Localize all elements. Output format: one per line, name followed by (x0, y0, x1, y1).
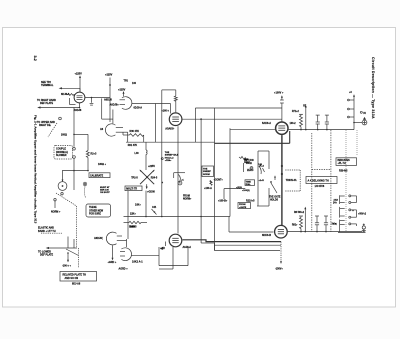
connector socket pins (349, 195, 357, 226)
svg-text:NORM +: NORM + (51, 211, 61, 214)
label 6DK6 (V6) (262, 234, 271, 237)
svg-text:5AK8-A: 5AK8-A (262, 122, 271, 125)
wire y151 (257, 151, 269, 206)
resistor R44 (124, 221, 148, 228)
svg-text:PART: PART (244, 161, 250, 164)
wire V5 cathode bold (281, 135, 283, 225)
svg-text:OTHER NEW: OTHER NEW (89, 210, 104, 212)
svg-text:MULTI TR: MULTI TR (126, 187, 137, 190)
resistor R30 (123, 130, 144, 142)
capacitor C84 (324, 216, 328, 232)
svg-text:+GR: +GR (160, 248, 165, 250)
wire V5 plate bus right (289, 129, 354, 131)
svg-text:+R+2: +R+2 (259, 166, 265, 168)
label A6DJ8 grid (104, 99, 119, 107)
variable arm R82 (294, 207, 306, 232)
svg-text:THE: THE (165, 152, 170, 154)
svg-text:-100 v +: -100 v + (62, 264, 71, 267)
pot wiper small (244, 163, 253, 172)
svg-text:24(3: 24(3 (334, 198, 339, 201)
ground chassis (362, 224, 366, 233)
wire V4 plate bold (183, 240, 282, 242)
tube V6 (275, 225, 288, 238)
label A6DJ8 (V1B) (100, 128, 104, 131)
svg-text:R2+3: R2+3 (91, 153, 97, 156)
contact pin (54, 199, 56, 209)
dashed box verticals (312, 130, 331, 232)
switch arm diagonal (66, 249, 79, 256)
ground symbol mid (274, 175, 276, 180)
svg-text:SWEEP: SWEEP (203, 171, 211, 173)
wire bus y216.5 (124, 216, 231, 218)
label block right of pot (100, 186, 110, 194)
wire y232 stub (229, 217, 274, 233)
svg-text:A6DJ8(: A6DJ8( (94, 237, 103, 240)
arrow marker above terminal (360, 111, 366, 120)
wire box top (195, 108, 282, 142)
label 6DJ8-A (61, 93, 70, 96)
pentode V3 (169, 113, 182, 126)
svg-text:R210+5: R210+5 (246, 199, 255, 202)
label 100-2 right of V5 (290, 122, 297, 125)
label 8DJ8 (72, 283, 81, 286)
label TO UPPER DEF PLATE (37, 121, 55, 127)
dashed box NORMAL (54, 146, 73, 160)
capacitor C83 (315, 216, 319, 232)
svg-text:HOLDS: HOLDS (270, 199, 279, 201)
label 5AK8-A (V5) (262, 122, 271, 125)
text THE SWEEP IDLE block (165, 152, 179, 162)
wire x201 drop (200, 119, 202, 243)
svg-text:CALIBRATE: CALIBRATE (90, 174, 104, 177)
wire center frame (162, 90, 176, 217)
connector P2 plug (340, 207, 345, 218)
dashed link (84, 187, 85, 198)
wire x178 cathode chain (177, 126, 179, 233)
svg-text:+100-B+: +100-B+ (218, 199, 228, 202)
label R31 (128, 144, 138, 147)
label NORM (51, 211, 61, 214)
svg-text:+160 v: +160 v (161, 110, 169, 113)
pentode V5 (276, 122, 288, 134)
wire feedback box (159, 246, 188, 269)
wire lower def-plate bus (46, 237, 77, 250)
label FROM NORM (183, 195, 192, 200)
svg-text:180Ω +: 180Ω + (98, 163, 107, 166)
svg-text:8DJ-A8: 8DJ-A8 (72, 283, 81, 286)
label A6DJ8 under V1A (74, 109, 82, 112)
svg-text:+225V: +225V (105, 74, 113, 77)
variable arm R72 (303, 105, 307, 130)
svg-text:10K+: 10K+ (135, 204, 141, 207)
terminal CRT upper (353, 120, 367, 125)
svg-text:NORM: NORM (203, 174, 210, 176)
svg-text:C44: C44 (152, 206, 157, 209)
label 1/4 6FV8 (315, 185, 325, 188)
label TP2 100 (124, 80, 137, 86)
svg-text:Circuit Description — Type 313: Circuit Description — Type 313A (371, 57, 375, 119)
label A5AK8 (165, 127, 174, 130)
resistor R1 grid stopper (67, 94, 75, 96)
label +100-A (204, 187, 212, 190)
node +225V (V2A plate) (118, 89, 126, 97)
junction marks (281, 165, 283, 175)
label +100-B (218, 199, 228, 202)
svg-text:10K2 A-1: 10K2 A-1 (132, 260, 143, 263)
label +50V (358, 213, 367, 215)
box RELAY note (60, 272, 97, 282)
small circle note (161, 158, 163, 184)
svg-text:TP2-5: TP2-5 (131, 177, 138, 180)
box A4 DELAYING (306, 177, 337, 184)
label A6DJ8 (V2B upper) (94, 237, 103, 240)
svg-text:3-6(: 3-6( (333, 223, 337, 225)
svg-text:24+: 24+ (333, 201, 338, 204)
svg-text:MUST AT: MUST AT (100, 186, 110, 189)
wire grid loop left (102, 98, 113, 119)
svg-text:L30: L30 (135, 152, 140, 155)
svg-text:+R34+: +R34+ (165, 159, 172, 162)
svg-text:SWEEP IDLE: SWEEP IDLE (165, 155, 179, 157)
caption SWEEP AND TRIG (38, 227, 56, 233)
svg-text:THE: THE (203, 168, 208, 170)
label R210 (242, 190, 255, 203)
svg-text:6DK6-B: 6DK6-B (262, 234, 271, 237)
switch arm dashed (56, 193, 77, 248)
svg-text:ON SUPP: ON SUPP (100, 192, 110, 194)
resistor R60 (174, 90, 177, 112)
box TIME DIAL (245, 180, 255, 186)
svg-text:+(2)Ω: +(2)Ω (236, 187, 242, 189)
resistor R71 (292, 111, 303, 129)
label TP left of X (131, 177, 138, 180)
svg-text:A6DJ8: A6DJ8 (104, 99, 112, 102)
label 6DJ8 (V2B lower) (132, 260, 143, 263)
dashed drop (78, 248, 80, 268)
wire box bottom (201, 243, 281, 251)
capacitor C44 (152, 206, 157, 215)
node -100V stub (62, 252, 71, 267)
label 10K (135, 204, 141, 207)
svg-text:INDICATES: INDICATES (338, 159, 351, 162)
label +GRD (V4) (160, 242, 166, 251)
connector P1 plug (334, 195, 345, 204)
wire bold y142 (215, 131, 290, 143)
node +100V (274, 92, 284, 122)
box INDICATES (336, 158, 357, 166)
box MULTI label (125, 186, 142, 191)
contact pin x180 (178, 181, 212, 185)
capacitor arc right of x173 (174, 173, 185, 183)
label 5AK8 above (129, 226, 136, 229)
svg-text:6DJ8-A: 6DJ8-A (134, 107, 143, 110)
label +CONT (214, 180, 224, 182)
wire box left (214, 108, 216, 251)
svg-text:+225V: +225V (118, 89, 126, 92)
svg-text:SEE: SEE (244, 159, 249, 161)
svg-text:3-2: 3-2 (33, 56, 37, 61)
svg-text:SLOWER: SLOWER (56, 154, 67, 157)
tube V4 (169, 234, 182, 247)
node +225V (second) (105, 74, 113, 123)
svg-text:R8 500+2: R8 500+2 (294, 212, 305, 214)
left rail junction (61, 133, 88, 136)
svg-text:TERMINAL: TERMINAL (41, 84, 54, 87)
svg-text:200Ω: 200Ω (61, 133, 67, 136)
svg-text:DEF PLATE: DEF PLATE (40, 102, 54, 105)
node -150V below V6 (280, 242, 282, 263)
svg-text:6DJ8-A: 6DJ8-A (61, 93, 70, 96)
wire V2A anode to box (132, 104, 171, 143)
svg-text:DEF PLATE: DEF PLATE (40, 254, 54, 257)
svg-text:A5AK8-: A5AK8- (165, 127, 174, 130)
label 6DJ8-A (V2A) (134, 107, 143, 110)
wire y188 stub (224, 189, 245, 199)
wire V6 plate bus right (288, 231, 363, 233)
wire def-plate bus (37, 103, 80, 109)
wire left rail (73, 108, 75, 147)
svg-text:+225V: +225V (75, 73, 83, 76)
svg-text:AND SO ON: AND SO ON (65, 277, 79, 280)
terminal small (59, 117, 62, 120)
label TO LOWER DEF PLATE (38, 250, 54, 256)
svg-text:THE GATE: THE GATE (269, 195, 281, 198)
svg-text:FROM: FROM (183, 195, 190, 197)
svg-text:+GATE: +GATE (239, 206, 247, 209)
switch arm rotary (270, 181, 277, 193)
figure caption (rotated) (34, 115, 38, 224)
svg-text:+100-A: +100-A (204, 187, 212, 190)
resistor R81 (292, 216, 303, 232)
svg-text:DIAL: DIAL (246, 183, 252, 186)
label AGRD (119, 268, 129, 271)
svg-text:+CONT+: +CONT+ (214, 180, 224, 182)
resistor R2 diagonal (86, 134, 97, 170)
svg-text:R31 47K: R31 47K (128, 144, 138, 147)
svg-text:100-2: 100-2 (290, 122, 297, 125)
terminal X (83, 182, 87, 186)
node +225V (V1 plate) (75, 73, 83, 93)
triode V2B lower (120, 248, 132, 261)
svg-text:+100V +: +100V + (274, 92, 284, 95)
svg-text:22K+: 22K+ (130, 212, 136, 215)
potentiometer R5 (58, 171, 67, 195)
svg-text:R39-NS: R39-NS (339, 169, 348, 172)
label 3-6 (332, 223, 337, 225)
svg-text:+GRD +: +GRD + (108, 261, 117, 264)
svg-text:BAND + LT7 TH: BAND + LT7 TH (38, 230, 56, 233)
svg-text:+50V+2: +50V+2 (358, 213, 367, 215)
box THESE (rounded) (86, 204, 111, 217)
dotted rail x346 (346, 130, 357, 232)
label TO RIGHT HAND DEF PLATE (37, 99, 56, 105)
svg-text:RIGHT DE.: RIGHT DE. (39, 124, 51, 127)
svg-text:R81+: R81+ (292, 224, 298, 226)
wire inner box (230, 128, 275, 216)
svg-text:A6DJ8+: A6DJ8+ (110, 104, 120, 107)
triode V2A (120, 97, 132, 110)
label A6DJ8 (V4) (183, 246, 192, 249)
svg-text:A6J8-A: A6J8-A (183, 246, 192, 249)
svg-text:(2): (2) (363, 113, 366, 115)
capacitor C74 (325, 115, 329, 130)
label 180 (98, 163, 107, 166)
svg-text:TRICN-3A: TRICN-3A (286, 179, 297, 182)
svg-text:+225V: +225V (148, 165, 155, 168)
page header (rotated) (371, 57, 375, 119)
wire X output arrow (146, 184, 156, 193)
box FROM GATE (238, 203, 251, 209)
switch SW1 contacts (73, 148, 76, 171)
box CALIBRATED (89, 173, 110, 178)
svg-text:+PL-TH: +PL-TH (338, 163, 346, 165)
svg-text:HOLD+2: HOLD+2 (165, 157, 174, 159)
text stack right notes (244, 159, 250, 164)
resistor R40 diagonal (239, 156, 254, 171)
wire V3 plate bus (183, 118, 282, 120)
svg-text:A 4 DELAYING TH: A 4 DELAYING TH (308, 179, 329, 182)
wire cathode arrow (108, 245, 117, 264)
svg-text:ZERO: ZERO (247, 170, 254, 172)
capacitor C1 (90, 97, 94, 105)
label R391 (339, 169, 348, 172)
inductor L30 (135, 142, 148, 170)
svg-text:Fig. 2-1 Amplifier Upper and: Fig. 2-1 Amplifier Upper and lower beam … (34, 115, 38, 224)
svg-text:+C: +C (181, 179, 184, 181)
svg-text:-150V+: -150V+ (275, 267, 283, 270)
svg-text:+2+R: +2+R (259, 180, 265, 182)
label 22K (130, 212, 136, 215)
svg-text:FOR SURE: FOR SURE (89, 214, 101, 216)
svg-text:FROM: FROM (239, 204, 246, 206)
label near box (161, 248, 164, 250)
label 24 (333, 201, 338, 204)
capacitor C73 (316, 115, 320, 130)
triode V1A (74, 92, 85, 103)
wire from box down (128, 191, 146, 239)
svg-text:NORM+: NORM+ (183, 198, 192, 200)
svg-text:1/4 6FV8: 1/4 6FV8 (315, 185, 325, 188)
wire dashed pointer (48, 123, 57, 137)
label R right of X (151, 176, 158, 179)
svg-text:THESE: THESE (89, 207, 97, 209)
label THE GATE HOLD (269, 195, 281, 201)
wire bottom bus right (338, 231, 366, 233)
wire cathode loop V1A (70, 98, 76, 105)
label +160v (161, 110, 169, 113)
svg-text:A6DJ8: A6DJ8 (74, 109, 82, 112)
box SWEEP NORMAL (202, 166, 214, 177)
wire link between V2B halves (126, 239, 128, 247)
wire lower bus y142 (126, 132, 215, 142)
label TRIG IN (285, 170, 300, 191)
svg-text:R30 47K: R30 47K (130, 130, 140, 133)
crossover X element (139, 170, 154, 185)
wire V2A cathode down to V1B (112, 110, 114, 124)
svg-text:+GD08: +GD08 (147, 190, 155, 193)
capacitor C40 (258, 163, 265, 174)
triode V1B (105, 124, 127, 136)
page number 3-2 (33, 56, 37, 61)
svg-text:TP2: TP2 (124, 80, 129, 83)
label SEE TP2 TERMINAL (41, 81, 54, 87)
node +225V (mid) (148, 165, 155, 168)
resistor small R56 (210, 181, 212, 186)
wire bus y170.6 (62, 170, 89, 190)
connector P3 plug (333, 220, 345, 233)
wire arrow to TP2 (59, 87, 80, 92)
wire V2B anode right (132, 254, 160, 256)
svg-text:AGRD +: AGRD + (119, 268, 129, 271)
wire V1A anode right (85, 97, 110, 99)
triode V2B upper (106, 232, 126, 245)
node +350V feed (348, 91, 356, 130)
svg-text:R71+2: R71+2 (292, 111, 300, 113)
svg-text:100: 100 (132, 82, 137, 85)
svg-text:R34-5: R34-5 (151, 176, 158, 179)
svg-text:+100(2): +100(2) (242, 190, 250, 192)
svg-text:5AK8: 5AK8 (129, 226, 136, 229)
